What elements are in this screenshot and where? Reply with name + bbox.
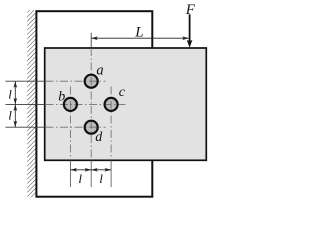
svg-text:a: a [96,62,103,78]
svg-text:l: l [78,171,82,186]
svg-text:F: F [185,2,196,18]
svg-text:l: l [99,171,103,186]
svg-text:b: b [58,90,65,105]
svg-text:L: L [134,25,143,41]
svg-text:l: l [8,87,12,102]
svg-text:c: c [119,85,126,100]
svg-text:d: d [95,130,103,145]
svg-text:l: l [8,108,12,123]
